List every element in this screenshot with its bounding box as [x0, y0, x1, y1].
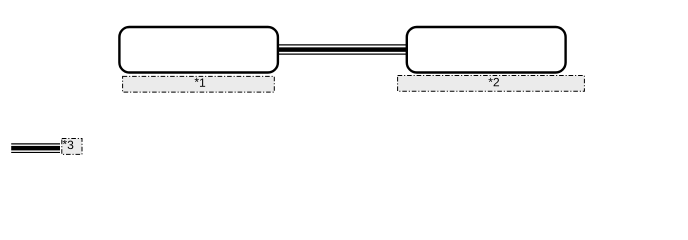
label box *3	[62, 139, 82, 155]
label text *1	[195, 78, 206, 87]
component block 2 (right connector body)	[407, 27, 566, 73]
component block 1 (left connector body)	[119, 27, 278, 73]
label box *1	[123, 76, 275, 92]
wire: shielded cable between connector block 1 and block 2	[277, 45, 408, 54]
label text *3	[63, 140, 74, 149]
label box *2	[398, 76, 585, 92]
label text *2	[488, 78, 499, 86]
wire: shielded cable legend sample	[11, 144, 60, 153]
